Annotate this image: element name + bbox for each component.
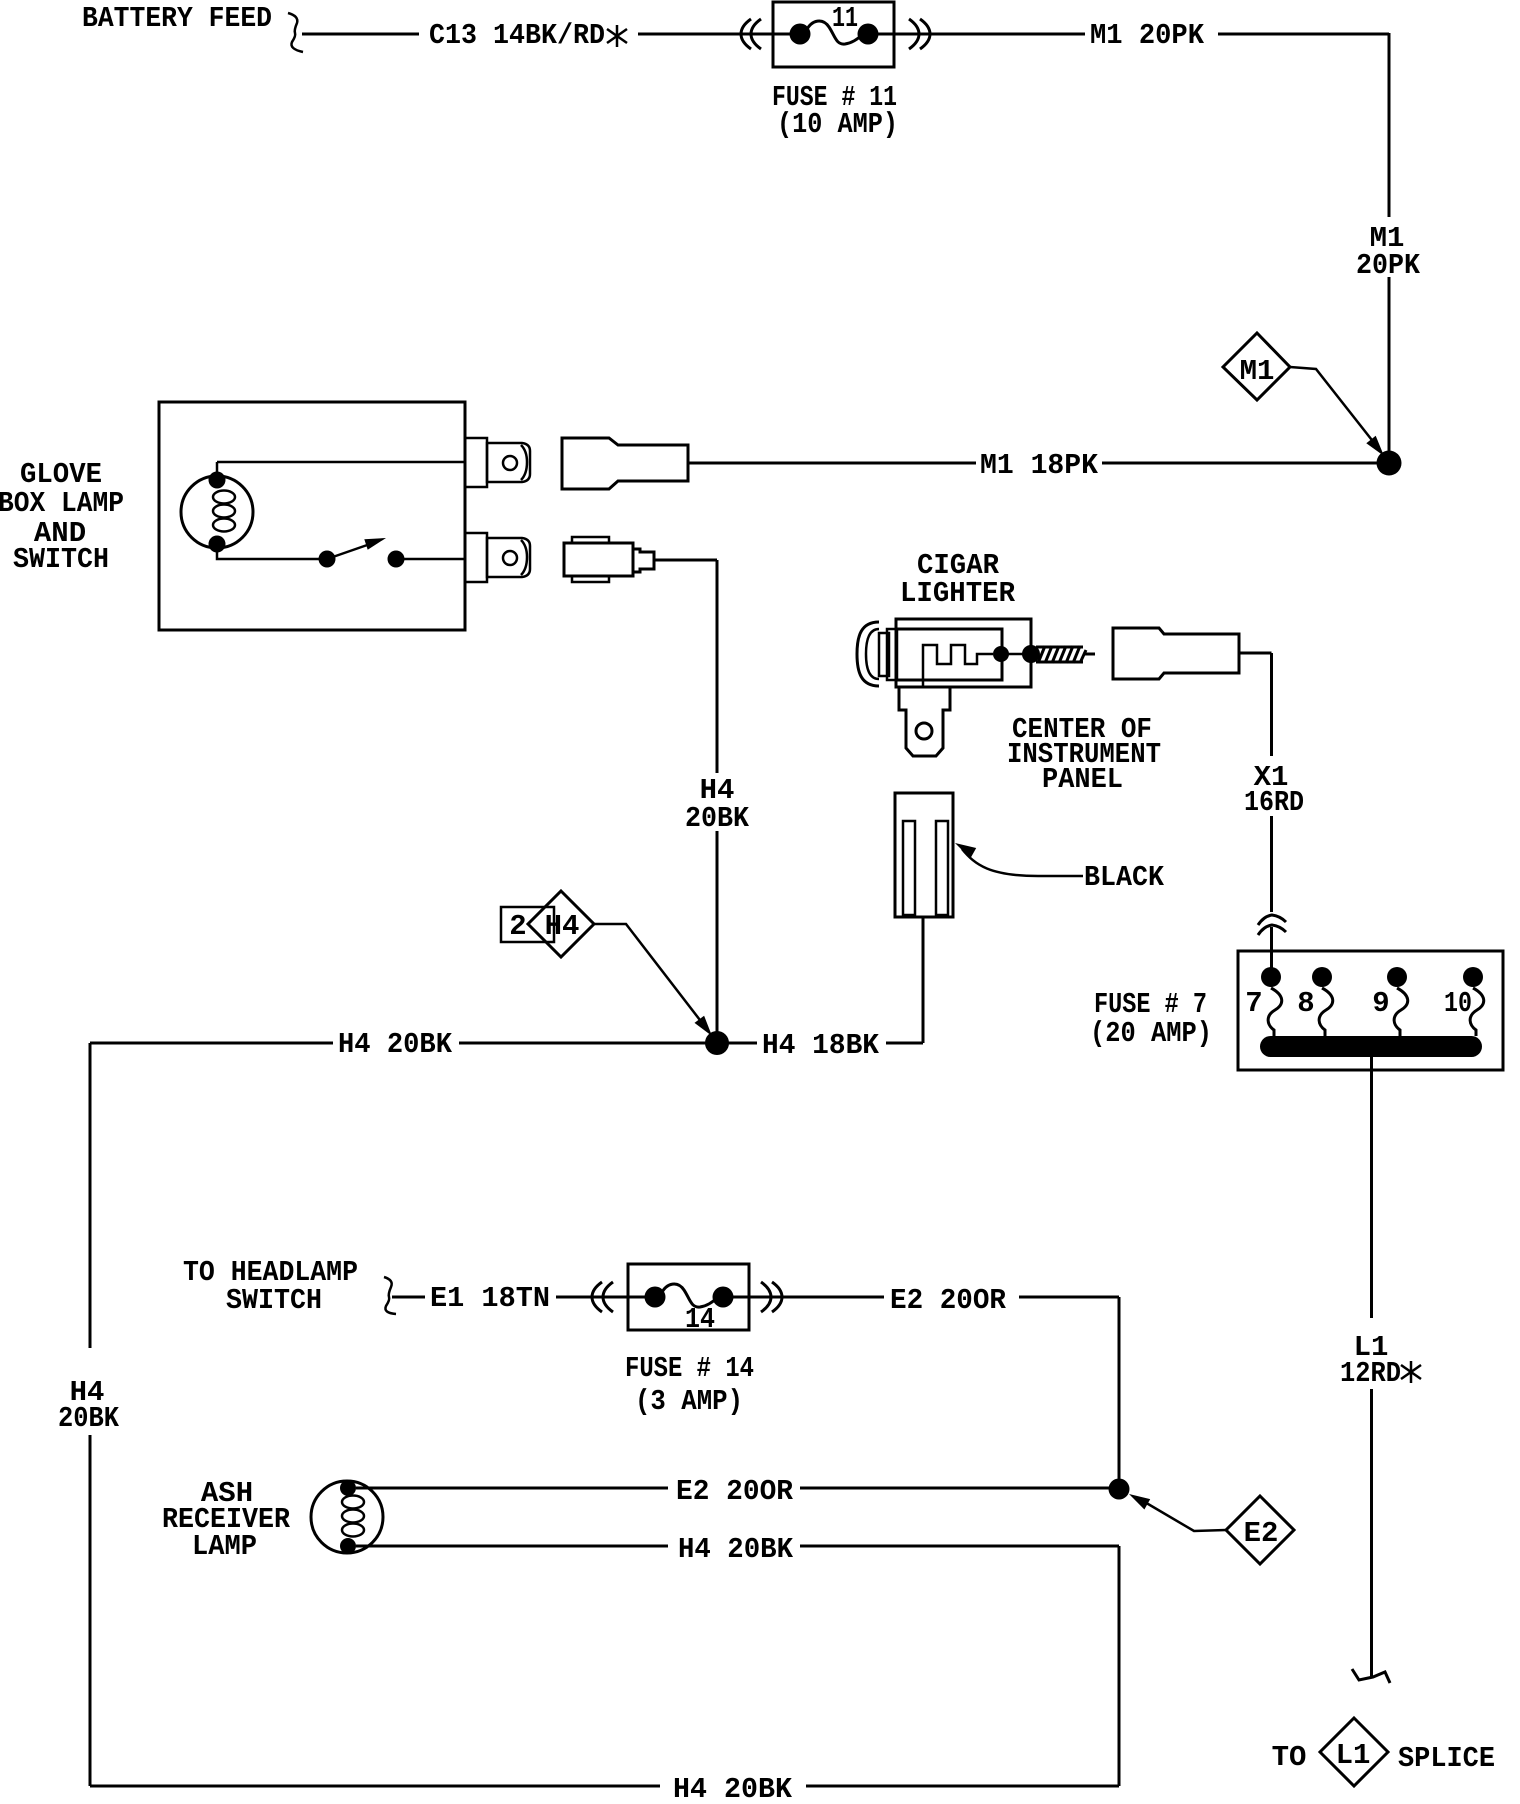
wire H4 18BK to connector drop [886,1042,923,1045]
wire fuse 14 to E2 label [723,1296,884,1299]
leader from H4 diamond to junction [594,924,703,1024]
arrowhead on H4 leader [695,1016,713,1036]
wire fuse 11 to M1 20PK label [868,33,1085,36]
wire battery feed to C13 label [302,33,419,36]
wire junction to H4 18BK label [724,1042,757,1045]
svg-text:2: 2 [509,910,526,943]
svg-text:12RD: 12RD [1340,1357,1401,1390]
svg-text:9: 9 [1372,987,1389,1020]
svg-text:H4 18BK: H4 18BK [762,1029,880,1062]
svg-text:16RD: 16RD [1244,786,1304,819]
wire lamp top to feed line [216,462,219,474]
leader from M1 diamond to junction [1290,367,1375,444]
arrowhead on switch blade [364,538,386,550]
wire M1 18PK left segment [688,462,976,465]
glove box lamp bulb circle [181,476,253,548]
splice reference diamond L1 [1320,1718,1388,1786]
wire L1 from bus bar down [1370,1057,1373,1318]
svg-text:PANEL: PANEL [1042,763,1123,796]
svg-text:M1: M1 [1240,355,1275,388]
wire H4 20BK left segment [90,1042,333,1045]
cigar lighter contact dot inner [993,646,1009,662]
svg-text:LAMP: LAMP [192,1530,257,1563]
svg-text:E1 18TN: E1 18TN [430,1282,550,1315]
leader from BLACK to connector [962,849,1083,876]
svg-text:H4: H4 [545,910,580,943]
svg-text:H4 20BK: H4 20BK [678,1533,794,1566]
ash lamp filament coil [342,1496,364,1537]
svg-text:20BK: 20BK [58,1402,120,1435]
svg-text:E2 20OR: E2 20OR [890,1284,1007,1317]
fuse F11 terminal dot right [858,24,879,45]
switch blade [327,543,373,559]
svg-text:7: 7 [1245,987,1262,1020]
svg-text:11: 11 [832,2,858,35]
ash lamp terminal dot top [340,1480,356,1496]
wire E2 label to corner [1019,1296,1119,1299]
wire H4 vertical upper segment [716,560,719,773]
fuse F14 terminal dot left [645,1287,666,1308]
wire E1 to fuse 14 [556,1296,655,1299]
cigar lighter knob inner arc [866,629,879,679]
wire H4 bottom left segment [90,1785,660,1788]
wire X1 vertical upper segment [1270,653,1273,756]
splice star symbol after C13 14BK/RD [607,25,627,47]
svg-text:M1 20PK: M1 20PK [1090,19,1205,52]
wire lamp feed line to box edge [217,461,465,464]
wire C13 label to fuse 11 [638,33,800,36]
wire X1 from connector to corner [1239,652,1272,655]
svg-text:SWITCH: SWITCH [13,543,109,576]
fuse wire squiggle pin 9 [1394,988,1408,1036]
svg-text:TO: TO [1272,1741,1307,1774]
svg-text:LIGHTER: LIGHTER [900,577,1016,610]
splice reference diamond E2 [1226,1496,1294,1564]
female bullet connector on H4 20BK [564,537,654,582]
svg-text:E2: E2 [1244,1517,1279,1550]
bracket mounting hole [916,723,932,739]
wire X1 vertical lower segment [1270,816,1273,912]
cigar lighter mounting screw thread [1036,646,1095,663]
connector cavity right [936,821,948,915]
cigar lighter flange [887,629,897,680]
wire lamp bottom to switch [217,551,327,559]
svg-text:E2 20OR: E2 20OR [676,1475,794,1508]
fuse block terminal dot 7 [1261,967,1281,987]
fuse F14 element wave [661,1284,718,1307]
circuit-break brace at battery feed [288,13,303,52]
wire H4 20BK to right corner [800,1545,1119,1548]
glove box lamp terminal dot top [209,472,226,489]
wire L1 vertical lower segment [1370,1389,1373,1676]
fuse block bus bar [1260,1036,1482,1057]
svg-text:(20 AMP): (20 AMP) [1090,1017,1212,1050]
junction node H4 [705,1031,729,1055]
wire switch to box edge [396,558,465,561]
wire E2 vertical to junction [1118,1297,1121,1480]
wire M1 20PK label to top right corner [1218,33,1389,36]
glove box lamp filament coil [213,491,235,532]
connector cavity left [903,821,915,915]
svg-text:L1: L1 [1336,1739,1371,1772]
wire M1 18PK right segment to junction [1102,462,1389,465]
inline connector chevrons right of fuse 11 [909,19,919,49]
wire E2 20OR from lamp [356,1487,668,1490]
svg-text:BATTERY FEED: BATTERY FEED [82,2,272,35]
arrowhead on E2 leader [1129,1494,1150,1510]
wire H4 bottom right segment [806,1785,1119,1788]
svg-text:H4 20BK: H4 20BK [338,1028,453,1061]
black 2-cavity connector [895,793,953,917]
wire H4 20BK to junction [459,1042,710,1045]
svg-text:SWITCH: SWITCH [226,1284,322,1317]
male spade terminal pin 2 (switch out) [465,533,530,582]
svg-text:FUSE # 14: FUSE # 14 [625,1352,754,1385]
junction node M1 [1377,451,1402,476]
arrowhead on M1 leader [1366,436,1384,456]
svg-text:20BK: 20BK [685,802,750,835]
inline connector chevrons right of fuse 14 [761,1282,771,1312]
cigar lighter mounting bracket [899,687,950,756]
wire H4 20BK from lamp [356,1545,668,1548]
wire X1 into fuse block [1270,927,1273,970]
fuse block terminal dot 9 [1387,967,1407,987]
svg-text:8: 8 [1297,987,1314,1020]
leader from E2 diamond to junction [1143,1501,1226,1531]
ash lamp terminal dot bottom [340,1538,356,1554]
fuse F11 element wave [806,21,863,44]
cigar lighter knob neck [879,633,889,676]
wire H4 left vertical upper segment [89,1043,92,1348]
splice star symbol after 12RD [1401,1361,1421,1383]
wire E2 20OR to junction [800,1487,1112,1490]
fuse block housing box [1238,951,1503,1070]
wire M1 vertical upper segment [1388,33,1391,217]
arrowhead on BLACK leader [955,843,976,858]
svg-text:BLACK: BLACK [1084,861,1165,894]
female connector on M1 18PK [562,438,688,489]
junction node E2 [1109,1479,1130,1500]
glove box lamp and switch housing box [159,402,465,630]
svg-text:H4 20BK: H4 20BK [673,1773,793,1804]
cigar lighter element support line [922,664,925,686]
cigar lighter knob outer arc [857,622,879,686]
wire H4 left vertical lower segment [89,1435,92,1786]
wire between contact dots [1001,653,1031,656]
connector reference diamond H4 [528,891,594,957]
cigar lighter shell [896,619,1031,687]
ash receiver lamp bulb circle [311,1481,383,1553]
circuit-break brace at headlamp switch feed [384,1277,396,1314]
switch contact dot right [388,551,405,568]
fuse F14 terminal dot right [713,1287,734,1308]
wire H4 vertical lower segment [716,831,719,1035]
connector reference box 2 [501,907,554,942]
fuse F14 box [628,1264,749,1330]
fuse wire squiggle pin 8 [1319,988,1333,1036]
wire-break squiggle at L1 end [1352,1669,1390,1683]
cigar lighter heating element zigzag [923,645,993,664]
wire-break chevrons on X1 at fuse block [1258,915,1286,925]
svg-text:(10 AMP): (10 AMP) [777,108,898,141]
fuse wire squiggle pin 7 [1268,988,1282,1036]
fuse wire squiggle pin 10 [1470,988,1484,1036]
svg-text:14: 14 [685,1303,715,1336]
wire brace to E1 label [392,1296,425,1299]
splice reference diamond M1 [1223,333,1290,400]
cigar lighter element housing [896,629,1002,680]
svg-text:BOX LAMP: BOX LAMP [0,487,124,520]
fuse F11 terminal dot left [790,24,811,45]
inline connector chevrons left of fuse 14 [592,1282,602,1312]
wire H4 20BK from connector to corner [654,559,717,562]
wire H4 vertical down right side [1118,1546,1121,1786]
female connector on X1 16RD [1113,628,1239,679]
svg-text:10: 10 [1444,987,1472,1020]
wire H4 18BK from connector down [922,917,925,1043]
svg-text:(3 AMP): (3 AMP) [635,1385,743,1418]
male spade terminal pin 1 (lamp feed) [465,438,530,487]
svg-text:C13 14BK/RD: C13 14BK/RD [429,19,605,52]
svg-text:M1 18PK: M1 18PK [980,449,1099,482]
fuse block terminal dot 10 [1463,967,1483,987]
wire M1 vertical lower segment [1388,277,1391,455]
fuse F11 box [773,2,894,67]
switch contact dot left [319,551,336,568]
inline connector chevrons left of fuse 11 [741,19,751,49]
glove box lamp terminal dot bottom [209,536,226,553]
fuse block terminal dot 8 [1312,967,1332,987]
svg-text:SPLICE: SPLICE [1398,1742,1495,1775]
cigar lighter contact dot outer [1022,645,1040,663]
